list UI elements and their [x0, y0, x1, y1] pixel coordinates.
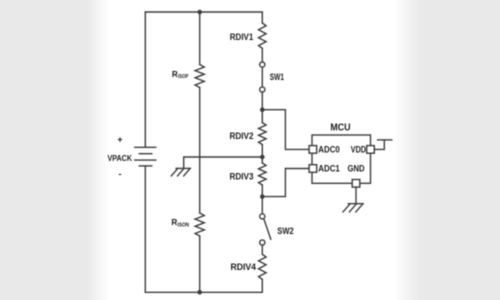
wire ADC1 tap — [262, 169, 309, 197]
label SW1 — [270, 72, 284, 82]
svg-text:VPACK: VPACK — [108, 154, 133, 163]
svg-text:R: R — [172, 70, 178, 79]
resistor RISOP — [195, 65, 204, 88]
wire bottom bus — [145, 291, 262, 293]
wire top bus — [145, 11, 262, 13]
wire left rail lower — [144, 166, 146, 292]
svg-text:RDIV3: RDIV3 — [230, 172, 254, 182]
label pin VDD — [351, 144, 367, 154]
label RDIV2 — [230, 131, 254, 141]
node ground junction — [260, 155, 265, 160]
svg-text:SW1: SW1 — [270, 72, 284, 82]
wire node to SW2 — [261, 197, 263, 214]
pin VDD — [367, 146, 375, 154]
svg-text:ADC1: ADC1 — [318, 164, 340, 174]
node ADC1 tap junction — [260, 194, 265, 199]
wire ground to divider midpoint — [184, 157, 263, 168]
wire VDD tap — [374, 140, 384, 150]
label pin ADC1 — [318, 164, 340, 174]
label RDIV1 — [230, 32, 254, 42]
wire middle rail mid — [199, 88, 201, 214]
svg-text:ISOP: ISOP — [178, 74, 189, 80]
wire left rail upper — [144, 12, 146, 147]
wire ground node to RDIV3 — [261, 157, 263, 163]
pin ADC1 — [309, 165, 317, 173]
svg-text:ISON: ISON — [178, 222, 190, 228]
label pin GND — [348, 164, 365, 174]
power rail bar (VDD supply) — [378, 139, 392, 141]
label MCU — [330, 122, 350, 133]
svg-text:RDIV1: RDIV1 — [230, 32, 254, 42]
svg-text:RDIV2: RDIV2 — [230, 131, 254, 141]
svg-text:SW2: SW2 — [277, 226, 294, 236]
label RISON — [171, 218, 189, 228]
svg-text:+: + — [117, 135, 122, 145]
MCU U1 box — [312, 135, 371, 183]
svg-text:GND: GND — [348, 164, 365, 174]
node ADC0 tap junction — [260, 107, 265, 112]
svg-text:MCU: MCU — [330, 122, 350, 133]
svg-text:R: R — [171, 218, 177, 227]
ground (chassis, MCU) — [343, 204, 363, 212]
wire middle rail bottom — [199, 236, 201, 292]
pin ADC0 — [309, 146, 317, 154]
svg-text:-: - — [119, 169, 122, 179]
svg-text:VDD: VDD — [351, 144, 367, 154]
resistor RDIV2 — [259, 123, 267, 145]
wire RDIV4 to bottom bus — [261, 279, 263, 292]
wire middle rail top — [199, 12, 201, 65]
svg-text:RDIV4: RDIV4 — [231, 262, 257, 272]
wire SW2 to RDIV4 — [261, 245, 263, 254]
label RDIV4 — [231, 262, 257, 272]
switch SW1 (closed) — [260, 62, 265, 92]
ground (chassis, left) — [171, 168, 190, 176]
wire node to RDIV2 — [261, 110, 263, 123]
wire GND tap — [355, 187, 357, 203]
wire SW1 to node ADC0 tap — [261, 92, 263, 110]
resistor RDIV4 — [259, 254, 267, 279]
label + (battery positive) — [117, 135, 122, 145]
pin GND — [352, 180, 360, 188]
switch SW2 (open) — [260, 214, 271, 245]
resistor RISON — [195, 213, 204, 236]
wire RDIV1 to SW1 — [261, 48, 263, 62]
wire right rail to RDIV1 — [261, 12, 263, 23]
wire RDIV2 to ground node — [261, 145, 263, 157]
label RISOP — [172, 70, 189, 80]
label RDIV3 — [230, 172, 254, 182]
resistor RDIV3 — [259, 163, 267, 185]
label pin ADC0 — [318, 144, 340, 154]
node bottom bus junction — [197, 290, 202, 295]
svg-text:ADC0: ADC0 — [318, 144, 340, 154]
battery VPACK — [135, 147, 156, 166]
wire RDIV3 to node ADC1 tap — [261, 185, 263, 197]
label VPACK — [108, 154, 133, 163]
node top bus junction — [197, 10, 202, 15]
wire ADC0 tap — [262, 110, 309, 150]
label - (battery negative) — [119, 169, 122, 179]
label SW2 — [277, 226, 294, 236]
resistor RDIV1 — [259, 23, 267, 48]
